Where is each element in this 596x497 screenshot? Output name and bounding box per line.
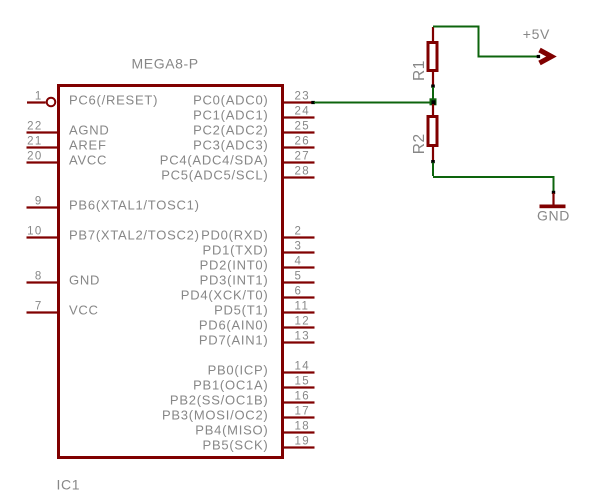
svg-text:R2: R2 [411, 133, 428, 154]
pin 15 PB1(OC1A) [193, 375, 314, 392]
pin 6 PD4(XCK/T0) [181, 285, 315, 302]
svg-text:PC0(ADC0): PC0(ADC0) [193, 93, 268, 108]
pin 20 AVCC [27, 150, 108, 167]
IC IC1 MEGA8-P body [59, 86, 283, 458]
svg-text:1: 1 [35, 90, 43, 102]
svg-text:7: 7 [35, 300, 43, 312]
pin 17 PB3(MOSI/OC2) [162, 405, 315, 422]
svg-text:27: 27 [295, 150, 311, 162]
svg-text:21: 21 [27, 135, 43, 147]
svg-text:PB5(SCK): PB5(SCK) [203, 438, 269, 453]
svg-text:10: 10 [27, 225, 43, 237]
svg-text:PC4(ADC4/SDA): PC4(ADC4/SDA) [160, 153, 269, 168]
svg-text:PD5(T1): PD5(T1) [214, 303, 268, 318]
pin 11 PD5(T1) [214, 300, 314, 317]
pin 13 PD7(AIN1) [199, 330, 315, 347]
svg-text:PC6(/RESET): PC6(/RESET) [69, 93, 158, 108]
svg-text:PC5(ADC5/SCL): PC5(ADC5/SCL) [161, 168, 268, 183]
svg-text:2: 2 [295, 225, 303, 237]
svg-text:19: 19 [295, 435, 311, 447]
svg-text:PB6(XTAL1/TOSC1): PB6(XTAL1/TOSC1) [69, 198, 200, 213]
svg-text:8: 8 [35, 270, 43, 282]
svg-text:PD2(INT0): PD2(INT0) [200, 258, 269, 273]
svg-text:28: 28 [295, 165, 311, 177]
svg-text:5: 5 [295, 270, 303, 282]
pin 4 PD2(INT0) [200, 255, 315, 272]
svg-text:PD4(XCK/T0): PD4(XCK/T0) [181, 288, 269, 303]
svg-text:9: 9 [35, 195, 43, 207]
svg-text:PB1(OC1A): PB1(OC1A) [193, 378, 268, 393]
pin 10 PB7(XTAL2/TOSC2) [27, 225, 200, 242]
pin 25 PC2(ADC2) [193, 120, 314, 137]
ground symbol GND [537, 191, 570, 224]
pin 7 VCC [27, 300, 99, 317]
svg-text:PC1(ADC1): PC1(ADC1) [193, 108, 268, 123]
svg-text:AVCC: AVCC [69, 153, 107, 168]
pin 16 PB2(SS/OC1B) [170, 390, 315, 407]
svg-text:AREF: AREF [69, 138, 107, 153]
svg-text:MEGA8-P: MEGA8-P [132, 55, 199, 71]
pin 3 PD1(TXD) [203, 240, 315, 257]
svg-text:PD7(AIN1): PD7(AIN1) [199, 333, 269, 348]
pin 28 PC5(ADC5/SCL) [161, 165, 314, 182]
junction node [430, 98, 437, 105]
svg-text:PD1(TXD): PD1(TXD) [203, 243, 269, 258]
svg-text:14: 14 [295, 360, 311, 372]
pin 18 PB4(MISO) [195, 420, 314, 437]
svg-text:IC1: IC1 [57, 477, 81, 493]
svg-text:GND: GND [537, 207, 570, 223]
svg-text:PC2(ADC2): PC2(ADC2) [193, 123, 268, 138]
pin 2 PD0(RXD) [201, 225, 314, 242]
svg-text:24: 24 [295, 105, 311, 117]
pin 12 PD6(AIN0) [199, 315, 315, 332]
svg-text:PD3(INT1): PD3(INT1) [200, 273, 269, 288]
pin 21 AREF [27, 135, 107, 152]
svg-text:16: 16 [295, 390, 311, 402]
pin 22 AGND [27, 120, 110, 137]
svg-text:PB4(MISO): PB4(MISO) [195, 423, 268, 438]
pin 8 GND [27, 270, 101, 287]
svg-text:GND: GND [69, 273, 100, 288]
pin 23 PC0(ADC0) [193, 90, 315, 107]
pin 19 PB5(SCK) [203, 435, 315, 452]
svg-text:25: 25 [295, 120, 311, 132]
svg-text:13: 13 [295, 330, 311, 342]
svg-text:PD0(RXD): PD0(RXD) [201, 228, 268, 243]
resistor R1 [411, 27, 437, 99]
wire R1 top to +5V [433, 27, 537, 57]
pin 5 PD3(INT1) [200, 270, 315, 287]
resistor R2 [411, 104, 437, 176]
svg-text:22: 22 [27, 120, 43, 132]
wire pin 23 to junction [314, 102, 432, 104]
pin 9 PB6(XTAL1/TOSC1) [27, 195, 200, 212]
svg-text:15: 15 [295, 375, 311, 387]
svg-text:AGND: AGND [69, 123, 110, 138]
svg-text:12: 12 [295, 315, 311, 327]
+5V supply symbol [523, 26, 552, 63]
svg-text:23: 23 [295, 90, 311, 102]
svg-text:VCC: VCC [69, 303, 99, 318]
svg-text:R1: R1 [411, 60, 428, 81]
wire R2 bottom to GND [433, 177, 554, 192]
svg-text:18: 18 [295, 420, 311, 432]
pin 1 PC6(/RESET) [27, 90, 158, 107]
pin 26 PC3(ADC3) [193, 135, 314, 152]
pin 27 PC4(ADC4/SDA) [160, 150, 315, 167]
svg-text:PB2(SS/OC1B): PB2(SS/OC1B) [170, 393, 269, 408]
pin 14 PB0(ICP) [208, 360, 315, 377]
svg-text:+5V: +5V [523, 26, 550, 42]
svg-text:17: 17 [295, 405, 311, 417]
svg-text:PB0(ICP): PB0(ICP) [208, 363, 269, 378]
svg-text:PC3(ADC3): PC3(ADC3) [193, 138, 268, 153]
svg-text:PB7(XTAL2/TOSC2): PB7(XTAL2/TOSC2) [69, 228, 200, 243]
svg-text:20: 20 [27, 150, 43, 162]
svg-text:PB3(MOSI/OC2): PB3(MOSI/OC2) [162, 408, 269, 423]
pin 24 PC1(ADC1) [193, 105, 314, 122]
svg-text:PD6(AIN0): PD6(AIN0) [199, 318, 269, 333]
svg-text:26: 26 [295, 135, 311, 147]
svg-text:3: 3 [295, 240, 303, 252]
svg-text:11: 11 [295, 300, 310, 312]
svg-text:6: 6 [295, 285, 303, 297]
svg-text:4: 4 [295, 255, 303, 267]
